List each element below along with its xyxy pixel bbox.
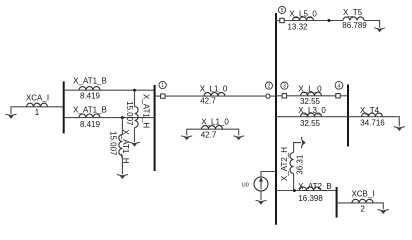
inductor X_AT1_H (left, vertical from lower wire) (121, 118, 123, 135)
wire bus A to bus B (upper) (64, 89, 155, 91)
wire X_L3_0 (bus C to bus D) (276, 116, 348, 118)
wire XCB_I (337, 203, 384, 209)
svg-text:X_L5_0: X_L5_0 (289, 9, 317, 18)
bus B (154, 85, 156, 171)
svg-text:2: 2 (268, 84, 271, 90)
svg-text:X_AT1_B: X_AT1_B (73, 76, 107, 85)
ground (left of XCA_I) (5, 114, 16, 119)
ground (right of XCB_I) (378, 210, 389, 215)
node 2 terminal circle (266, 94, 270, 98)
node 2 circle (265, 82, 272, 89)
inductor XCB_I (352, 199, 373, 203)
svg-text:86.789: 86.789 (342, 21, 367, 30)
wire from ground up and right to bus A (11, 107, 63, 115)
inductor X_T5 (343, 17, 364, 21)
svg-text:13.32: 13.32 (287, 23, 308, 32)
svg-text:8.419: 8.419 (80, 92, 101, 101)
junction on upper wire (133, 89, 136, 92)
svg-text:36.31: 36.31 (296, 154, 305, 175)
inductor X_AT1_H (right, vertical from upper wire) (134, 90, 136, 106)
junction on X_AT2_B wire (293, 189, 296, 192)
svg-text:32.55: 32.55 (300, 97, 321, 106)
node 5 terminal square (276, 20, 280, 22)
wire X_T4 (348, 117, 399, 127)
node 1 terminal square (155, 95, 161, 97)
svg-text:42.7: 42.7 (200, 97, 216, 106)
svg-text:XCA_I: XCA_I (26, 93, 49, 102)
svg-text:2: 2 (360, 204, 365, 213)
inductor X_AT2_H (vertical) (293, 174, 296, 191)
svg-text:X_T5: X_T5 (343, 8, 363, 17)
svg-text:8.419: 8.419 (80, 120, 101, 129)
ground (right of X_T5) (374, 28, 385, 33)
svg-text:X_AT1_H: X_AT1_H (121, 130, 130, 164)
svg-text:32.55: 32.55 (300, 119, 321, 128)
wire X_L5_0 (284, 20, 343, 22)
inductor X_AT1_B (lower) (79, 114, 100, 118)
ground (right of X_T4) (394, 127, 405, 132)
svg-text:X_T4: X_T4 (360, 106, 380, 115)
source arrow (260, 180, 262, 190)
svg-text:X_AT1_B: X_AT1_B (73, 105, 107, 114)
node 4 terminal square (336, 94, 340, 98)
inductor X_AT1_B (upper) (79, 87, 100, 91)
svg-text:4: 4 (338, 83, 341, 89)
node 3 circle (281, 82, 288, 89)
svg-text:3: 3 (283, 84, 286, 90)
svg-text:X_L3_0: X_L3_0 (298, 106, 326, 115)
svg-text:15.007: 15.007 (125, 101, 134, 126)
node 4 circle (335, 81, 343, 89)
inductor X_L_0 (301, 92, 322, 96)
ground (below left X_AT1_H) (117, 175, 128, 180)
bus C (central tall bus) (275, 13, 277, 225)
wire X_L_0 (node3 to node4) (287, 95, 336, 97)
svg-text:42.7: 42.7 (201, 131, 217, 140)
svg-text:X_L1_0: X_L1_0 (201, 117, 229, 126)
wire source bottom to ground (260, 191, 262, 200)
svg-text:X_L1_0: X_L1_0 (200, 84, 228, 93)
ground (left of lower X_L1_0) (181, 136, 192, 141)
inductor X_L3_0 (301, 113, 322, 117)
junction on T5 wire (328, 19, 331, 22)
inductor X_L1_0 (top) (204, 93, 225, 97)
inductor X_L5_0 (293, 17, 314, 21)
svg-text:X_L_0: X_L_0 (298, 85, 322, 94)
wire X_AT2_B (bus C to bus E) (276, 190, 337, 192)
bus D (347, 85, 349, 147)
inductor X_AT2_B (300, 187, 321, 191)
svg-text:1: 1 (161, 83, 164, 89)
wire source top to bus C (261, 172, 276, 178)
svg-text:X_AT2_H: X_AT2_H (280, 147, 289, 181)
inductor X_T4 (362, 113, 383, 117)
svg-text:X_AT2_B: X_AT2_B (298, 182, 332, 191)
inductor XCA_I (27, 103, 48, 107)
svg-text:5: 5 (281, 8, 284, 14)
ground (right-pointing, top of X_AT2_H) (301, 137, 306, 148)
ground (below source) (255, 200, 266, 205)
ground (right of lower X_L1_0) (233, 136, 244, 141)
source U0 (254, 177, 268, 191)
ground (below right X_AT1_H) (129, 142, 140, 147)
svg-text:15.007: 15.007 (108, 131, 117, 156)
svg-text:1: 1 (35, 108, 40, 117)
svg-text:U0: U0 (242, 182, 249, 188)
svg-text:34.716: 34.716 (360, 119, 385, 128)
node 3 terminal square (276, 95, 282, 97)
wire X_L1_0 (node1 to node2) (165, 95, 266, 97)
wire bus A to bus B (lower) (64, 117, 155, 119)
bus A (63, 81, 65, 133)
node 1 circle (159, 81, 166, 88)
svg-text:X_AT1_H: X_AT1_H (142, 94, 151, 128)
inductor X_L1_0 (grounded, below) (187, 129, 239, 135)
node 5 circle (278, 6, 285, 13)
junction on lower wire (121, 116, 124, 119)
svg-text:XCB_I: XCB_I (351, 189, 374, 198)
bus E (336, 187, 338, 218)
svg-text:16.398: 16.398 (298, 194, 323, 203)
